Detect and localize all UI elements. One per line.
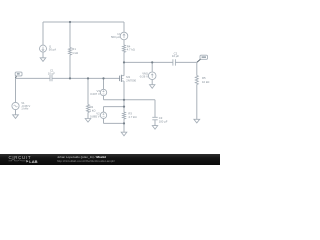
svg-text:LAB: LAB — [29, 159, 37, 164]
svg-text:-0.26 V: -0.26 V — [139, 75, 148, 79]
svg-text:1 kHz: 1 kHz — [21, 107, 29, 111]
svg-text:50 µA: 50 µA — [49, 48, 56, 52]
svg-text:10 kΩ: 10 kΩ — [202, 80, 209, 84]
svg-text:2N7000: 2N7000 — [126, 78, 136, 82]
svg-text:0.007 V: 0.007 V — [90, 92, 100, 96]
svg-text:CIRCUIT: CIRCUIT — [9, 155, 32, 160]
svg-text:1 kΩ: 1 kΩ — [72, 51, 78, 55]
svg-text:100 µF: 100 µF — [159, 119, 168, 123]
svg-text:10 µF: 10 µF — [172, 54, 179, 58]
svg-text:500 µA: 500 µA — [111, 35, 120, 39]
svg-text:4.7 kΩ: 4.7 kΩ — [127, 48, 135, 52]
svg-text:0.885 V: 0.885 V — [90, 114, 100, 118]
svg-text:http://circuitlab.com/c/9v23u4: http://circuitlab.com/c/9v23u4/mosfet-am… — [57, 159, 115, 163]
svg-text:4.7 kΩ: 4.7 kΩ — [128, 115, 136, 119]
svg-text:1 kΩ: 1 kΩ — [90, 108, 96, 112]
svg-text:10 µF: 10 µF — [48, 71, 55, 75]
